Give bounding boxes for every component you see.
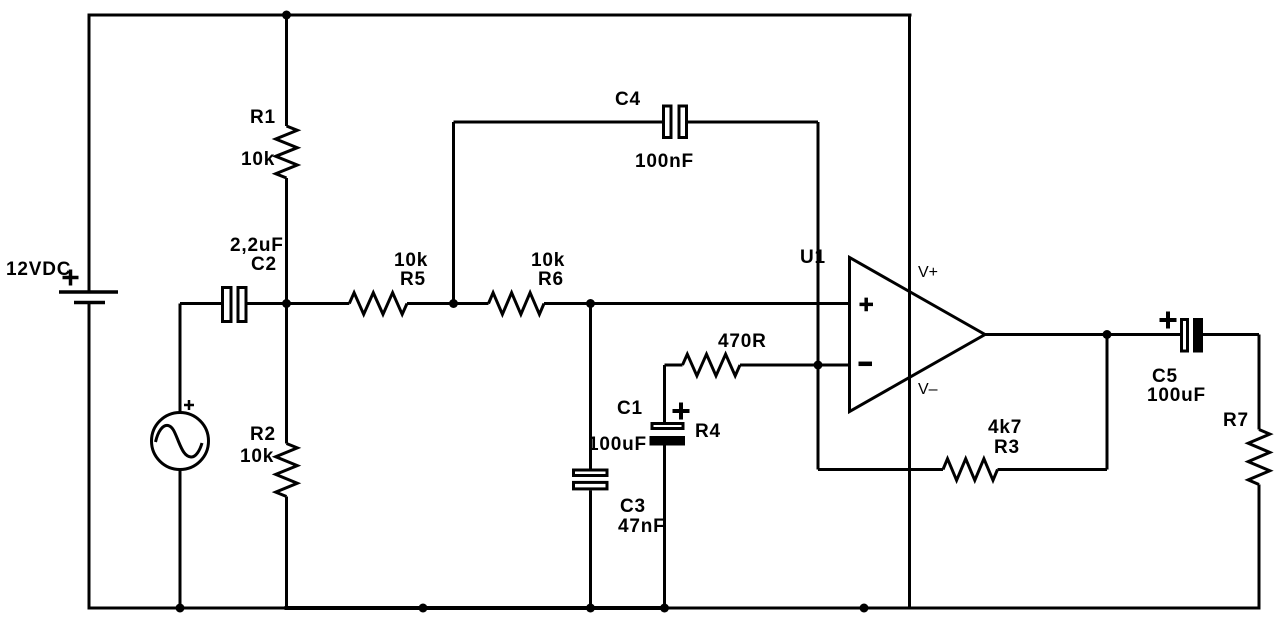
svg-text:10k: 10k [394,250,428,271]
resistor R3 feedback [818,335,1107,481]
wire op-amp output [985,333,1107,336]
node source / bottom rail [176,604,185,613]
resistor R5 [287,293,454,315]
svg-text:R7: R7 [1223,410,1249,431]
capacitor C2 [180,288,287,322]
resistor R6 [454,293,591,315]
wire left rail bottom [88,304,91,609]
wire to op-amp plus input [591,302,850,305]
node bottom rail stub A [419,604,428,613]
node R5 / R6 / C4 branch [449,299,458,308]
svg-text:470R: 470R [718,331,767,352]
node C1 / bottom rail [660,604,669,613]
svg-text:10k: 10k [240,446,274,467]
svg-text:U1: U1 [800,247,826,268]
wire top rail [89,14,910,17]
resistor R2 [276,304,298,609]
node inverting input [814,361,823,370]
svg-text:V+: V+ [918,264,938,281]
node output [1103,330,1112,339]
resistor R7 [1248,335,1270,609]
svg-text:R2: R2 [250,424,276,445]
capacitor C5 [1107,312,1259,353]
svg-text:C4: C4 [615,89,641,110]
svg-text:100nF: 100nF [635,151,694,172]
svg-text:C2: C2 [251,254,277,275]
svg-text:C1: C1 [617,398,643,419]
capacitor C3 [574,304,608,609]
svg-text:R5: R5 [400,269,426,290]
svg-text:C3: C3 [620,496,646,517]
wire bottom rail thick overlap [287,606,666,610]
wire left rail top [88,15,91,291]
capacitor C4 [454,106,819,365]
svg-text:100uF: 100uF [1147,385,1206,406]
svg-text:R1: R1 [250,107,276,128]
svg-text:12VDC: 12VDC [6,259,71,280]
svg-text:R3: R3 [994,437,1020,458]
svg-text:100uF: 100uF [588,434,647,455]
svg-text:V–: V– [918,381,938,398]
resistor R4 470R [665,354,850,376]
op-amp U1 [850,258,986,412]
svg-text:R6: R6 [538,269,564,290]
svg-text:47nF: 47nF [618,516,666,537]
svg-text:R4: R4 [695,421,721,442]
svg-text:C5: C5 [1152,366,1178,387]
wire bottom rail [89,607,1259,610]
node R6 / C3 branch / op-amp input [586,299,595,308]
svg-text:2,2uF: 2,2uF [230,235,284,256]
node top rail / R1 [282,11,291,20]
wire right power rail V+/V- [908,15,911,608]
svg-text:10k: 10k [241,149,275,170]
svg-text:4k7: 4k7 [988,417,1022,438]
sine source [152,304,209,609]
node C3 / bottom rail [586,604,595,613]
svg-text:10k: 10k [531,250,565,271]
node C2 / R1 / R2 [282,299,291,308]
resistor R1 [276,15,298,304]
capacitor C1 [650,365,690,608]
battery 12VDC [59,270,118,303]
node bottom rail stub B [860,604,869,613]
